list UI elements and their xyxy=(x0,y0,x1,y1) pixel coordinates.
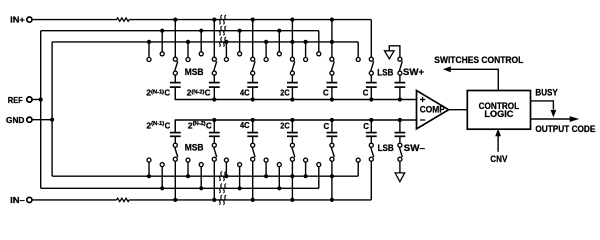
switch S2 lower xyxy=(212,143,216,157)
wire GND lead xyxy=(32,119,52,121)
ground symbol (SW- throw) xyxy=(395,161,405,182)
capacitor 2^(N-2)C lower xyxy=(209,133,220,137)
capacitor C lower xyxy=(327,133,338,137)
wire BUSY arrow xyxy=(531,101,557,118)
node SWITCHES CONTROL label xyxy=(434,55,523,65)
wire GND bus lower (bus3) xyxy=(52,162,358,176)
wire REF bus upper (bus2) xyxy=(41,31,319,52)
svg-text:C: C xyxy=(363,88,369,98)
wire comparator output xyxy=(449,109,468,111)
value label C lower (LSB) xyxy=(363,121,369,131)
wire bus1 stub upper C xyxy=(330,18,334,58)
capacitor C upper xyxy=(327,83,338,88)
node contact-GND upper C xyxy=(304,58,308,62)
capacitor C(LSB) upper xyxy=(366,83,377,88)
node contact-IN upper 2^(N-1)C xyxy=(173,57,177,61)
switch S5 upper xyxy=(330,61,334,75)
wire upper 2^(N-1)C plate lead xyxy=(174,75,176,83)
node contact-GND lower 4C xyxy=(224,158,228,162)
capacitor 2^(N-1)C lower xyxy=(170,133,181,137)
value label C upper (bit1) xyxy=(323,88,329,98)
junction GND-vertical xyxy=(50,118,54,122)
value label 2C lower xyxy=(280,121,289,131)
wire bus1 stub upper 4C xyxy=(251,18,255,58)
wire IN+ bus (upper bus1) xyxy=(129,20,371,58)
svg-text:MSB: MSB xyxy=(185,67,204,77)
wire lower 2C plate lead xyxy=(291,136,293,143)
node LSB label upper xyxy=(377,67,393,77)
svg-text:(N-1): (N-1) xyxy=(151,121,164,127)
node contact-IN lower C xyxy=(330,157,334,161)
node contact-REF lower 2^(N-1)C xyxy=(160,163,164,167)
wire upper C rail lead xyxy=(330,87,334,102)
node LSB label lower xyxy=(378,143,394,153)
op-amp U1 comparator xyxy=(417,91,449,129)
wire lower 2^(N-2)C rail lead xyxy=(212,118,216,133)
node REF terminal xyxy=(8,95,32,105)
node contact-REF upper 2^(N-2)C xyxy=(199,52,203,56)
node contact-GND lower 2^(N-2)C xyxy=(186,158,190,162)
svg-text:C: C xyxy=(165,121,171,131)
capacitor C-SW- xyxy=(395,133,406,137)
node contact-REF lower C xyxy=(317,163,321,167)
node CNV label xyxy=(490,154,507,164)
wire upper 2^(N-1)C rail lead xyxy=(174,87,176,99)
wire IN- bus (lower bus1) xyxy=(129,161,371,200)
wire lower 2^(N-1)C plate lead xyxy=(174,136,176,143)
value label C upper (LSB) xyxy=(363,88,369,98)
node contact-IN upper 4C xyxy=(251,57,255,61)
value label 2^(N-1)C upper xyxy=(146,88,170,98)
wire lower C(LSB) rail lead xyxy=(369,118,373,133)
svg-text:2C: 2C xyxy=(280,88,289,98)
svg-text:COMP: COMP xyxy=(420,105,445,115)
wire bus2 stub lower 2^(N-1)C xyxy=(160,167,164,191)
wire SW+ rail lead xyxy=(398,87,402,102)
wire lower C rail lead xyxy=(330,118,334,133)
wire CNV arrow xyxy=(495,129,501,152)
wire lower rail (comparator - input) xyxy=(175,120,416,133)
wire REF lead xyxy=(32,99,41,101)
node contact-IN lower 2C xyxy=(290,157,294,161)
switch SW+ xyxy=(398,61,402,75)
wire bus3 stub lower C xyxy=(304,162,308,178)
wire OUTPUT CODE arrow xyxy=(531,116,580,122)
svg-text:(N-2): (N-2) xyxy=(191,89,204,95)
switch S1 upper xyxy=(173,61,177,75)
wire bus3 stub lower 4C xyxy=(224,162,228,178)
wire bus1 stub lower 2^(N-1)C xyxy=(173,161,177,202)
wire bus2 stub lower 2C xyxy=(277,167,281,191)
wire SW- rail lead xyxy=(398,118,402,133)
wire SW+ cap lead xyxy=(399,75,401,83)
wire break mark 2 xyxy=(219,26,226,35)
wire bus2 stub lower 4C xyxy=(238,167,242,191)
svg-text:C: C xyxy=(323,88,329,98)
value label 2^(N-1)C lower xyxy=(146,121,170,131)
wire upper C(LSB) rail lead xyxy=(369,87,373,102)
switch SW- xyxy=(398,143,402,157)
node contact-GND lower 2^(N-1)C xyxy=(147,158,151,162)
wire lower C plate lead xyxy=(331,136,333,143)
svg-text:SW+: SW+ xyxy=(403,67,425,77)
switch S4 lower xyxy=(290,143,294,157)
wire lower C(LSB) plate lead xyxy=(370,136,372,143)
svg-text:BUSY: BUSY xyxy=(535,87,557,97)
svg-text:GND: GND xyxy=(6,115,24,125)
wire lower 2C rail lead xyxy=(290,118,294,133)
node OUTPUT CODE label xyxy=(535,124,595,134)
node contact-IN lower 2^(N-2)C xyxy=(212,157,216,161)
wire bus3 stub upper 2^(N-1)C xyxy=(147,40,151,58)
node IN- terminal xyxy=(10,195,32,205)
wire break mark 1 xyxy=(219,15,226,24)
node GND terminal xyxy=(6,115,32,125)
wire lower 4C plate lead xyxy=(252,136,254,143)
junction REF-vertical xyxy=(39,97,43,101)
node contact-IN upper 2^(N-2)C xyxy=(212,57,216,61)
node contact-REF upper 2C xyxy=(277,52,281,56)
wire REF bus lower (bus2) xyxy=(41,167,319,189)
wire upper 2^(N-2)C rail lead xyxy=(212,87,216,102)
wire upper 4C plate lead xyxy=(252,75,254,83)
node contact-REF upper 4C xyxy=(238,52,242,56)
node contact-REF upper C xyxy=(317,52,321,56)
node contact-GND lower C xyxy=(304,158,308,162)
wire break mark 6 xyxy=(219,195,226,204)
node SW+ label xyxy=(403,67,425,77)
node contact-REF lower 4C xyxy=(238,163,242,167)
svg-text:IN+: IN+ xyxy=(10,15,25,25)
value label 2^(N-2)C lower xyxy=(188,121,212,131)
wire bus1 stub lower 2C xyxy=(290,161,294,202)
svg-text:MSB: MSB xyxy=(185,143,204,153)
node MSB label upper xyxy=(185,67,204,77)
svg-text:C: C xyxy=(206,121,212,131)
wire upper 4C rail lead xyxy=(251,87,255,102)
svg-text:LSB: LSB xyxy=(378,143,394,153)
svg-text:SWITCHES CONTROL: SWITCHES CONTROL xyxy=(434,55,523,65)
svg-text:REF: REF xyxy=(8,95,23,105)
wire lower 2^(N-2)C plate lead xyxy=(213,136,215,143)
capacitor C(LSB) lower xyxy=(366,133,377,137)
switch S1 lower xyxy=(173,143,177,157)
node contact SW- xyxy=(398,157,402,161)
resistor R2 (IN- series) xyxy=(117,198,130,201)
node contact-IN upper 2C xyxy=(290,57,294,61)
switch S3 lower xyxy=(251,143,255,157)
switch S6 upper xyxy=(369,61,373,75)
wire bus3 stub lower 2^(N-1)C xyxy=(147,162,151,178)
svg-text:OUTPUT CODE: OUTPUT CODE xyxy=(535,124,595,134)
wire bus2 stub upper 2^(N-1)C xyxy=(160,29,164,52)
value label 2^(N-2)C upper xyxy=(187,88,211,98)
wire bus1 stub upper 2C xyxy=(290,18,294,58)
capacitor 2C lower xyxy=(287,133,298,137)
wire bus3 stub upper 2^(N-2)C xyxy=(186,40,190,58)
svg-text:SW–: SW– xyxy=(404,143,425,153)
capacitor 2C upper xyxy=(287,83,298,88)
wire bus2 stub lower 2^(N-2)C xyxy=(199,167,203,191)
svg-text:4C: 4C xyxy=(240,88,250,98)
wire upper rail (comparator + input) xyxy=(175,87,416,99)
svg-text:2C: 2C xyxy=(280,121,289,131)
node IN+ terminal xyxy=(10,15,32,25)
wire bus1 stub upper 2^(N-2)C xyxy=(212,18,216,58)
node BUSY label xyxy=(535,87,557,97)
node contact-GND upper 2^(N-1)C xyxy=(147,58,151,62)
svg-text:(N-1): (N-1) xyxy=(151,89,164,95)
wire bus1 stub lower 2^(N-2)C xyxy=(212,161,216,202)
wire lower 2^(N-1)C rail lead xyxy=(174,120,176,133)
control logic U2 xyxy=(467,91,530,130)
ground symbol (SW+ throw) xyxy=(385,46,400,59)
node contact SW+ xyxy=(398,57,402,61)
wire bus3 stub upper C xyxy=(304,40,308,58)
node contact-IN upper C xyxy=(330,57,334,61)
wire REF vertical xyxy=(40,31,42,189)
capacitor 4C lower xyxy=(247,133,258,137)
node contact-GND upper 4C xyxy=(224,58,228,62)
switch S6 lower xyxy=(369,143,373,157)
capacitor C-SW+ xyxy=(395,83,406,88)
capacitor 4C upper xyxy=(247,83,258,88)
wire upper C(LSB) plate lead xyxy=(370,75,372,83)
node MSB label lower xyxy=(185,143,204,153)
node contact-GND upper C(LSB) xyxy=(356,58,360,62)
node contact-REF lower 2C xyxy=(277,163,281,167)
capacitor 2^(N-2)C upper xyxy=(209,83,220,88)
node contact-IN upper C(LSB) xyxy=(369,57,373,61)
node contact-GND lower 2C xyxy=(264,158,268,162)
value label C lower (bit1) xyxy=(324,121,330,131)
resistor R1 (IN+ series) xyxy=(117,18,130,21)
wire bus1 stub lower 4C xyxy=(251,161,255,202)
svg-text:LOGIC: LOGIC xyxy=(484,109,514,119)
node contact-IN lower 4C xyxy=(251,157,255,161)
wire upper 2^(N-2)C plate lead xyxy=(213,75,215,83)
wire switches control arrow xyxy=(443,66,499,90)
node contact-GND upper 2C xyxy=(264,58,268,62)
wire bus3 stub lower 2^(N-2)C xyxy=(186,162,190,178)
wire break mark 3 xyxy=(219,37,226,46)
wire bus3 stub lower 2C xyxy=(264,162,268,178)
wire bus2 stub upper 4C xyxy=(238,29,242,52)
wire break mark 4 xyxy=(219,172,226,181)
svg-text:4C: 4C xyxy=(240,120,250,130)
node contact-REF lower 2^(N-2)C xyxy=(199,163,203,167)
wire GND bus upper (bus3) xyxy=(52,42,358,58)
node contact-GND upper 2^(N-2)C xyxy=(186,58,190,62)
wire bus2 stub upper 2^(N-2)C xyxy=(199,29,203,52)
switch S4 upper xyxy=(290,61,294,75)
wire lower 4C rail lead xyxy=(251,118,255,133)
value label 2C upper xyxy=(280,88,289,98)
capacitor 2^(N-1)C upper xyxy=(170,83,181,88)
wire break mark 5 xyxy=(219,184,226,193)
node SW- label xyxy=(404,143,425,153)
node contact-IN lower 2^(N-1)C xyxy=(173,157,177,161)
wire upper 2C rail lead xyxy=(290,87,294,102)
switch S3 upper xyxy=(251,61,255,75)
svg-text:C: C xyxy=(363,121,369,131)
svg-text:(N-2): (N-2) xyxy=(193,121,206,127)
node contact-IN lower C(LSB) xyxy=(369,157,373,161)
switch S5 lower xyxy=(330,143,334,157)
wire upper 2C plate lead xyxy=(291,75,293,83)
svg-text:CNV: CNV xyxy=(490,154,507,164)
wire bus1 stub lower C xyxy=(330,161,334,202)
wire SW- cap lead xyxy=(399,136,401,143)
wire bus1 stub upper 2^(N-1)C xyxy=(173,18,177,58)
wire bus2 stub upper 2C xyxy=(277,29,281,52)
wire IN+ lead xyxy=(32,19,117,21)
wire upper C plate lead xyxy=(331,75,333,83)
svg-text:C: C xyxy=(164,88,170,98)
svg-text:C: C xyxy=(205,88,211,98)
wire IN- lead xyxy=(32,199,117,201)
svg-text:LSB: LSB xyxy=(377,67,393,77)
wire bus3 stub upper 2C xyxy=(264,40,268,58)
wire GND vertical xyxy=(51,42,53,176)
svg-text:C: C xyxy=(324,121,330,131)
value label 4C lower xyxy=(240,120,250,130)
node contact-GND lower C(LSB) xyxy=(356,158,360,162)
svg-text:IN–: IN– xyxy=(10,195,25,205)
switch S2 upper xyxy=(212,61,216,75)
wire bus3 stub upper 4C xyxy=(224,40,228,58)
value label 4C upper xyxy=(240,88,250,98)
node contact-REF upper 2^(N-1)C xyxy=(160,52,164,56)
